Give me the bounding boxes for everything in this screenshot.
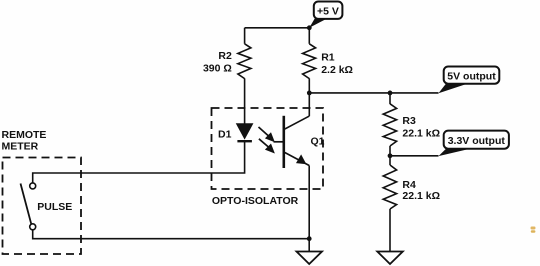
- svg-text:Q1: Q1: [311, 136, 325, 148]
- svg-text:METER: METER: [2, 141, 39, 153]
- svg-text:22.1 kΩ: 22.1 kΩ: [402, 127, 440, 139]
- svg-text:R1: R1: [321, 51, 335, 63]
- svg-text:PULSE: PULSE: [37, 201, 72, 213]
- svg-text:3.3V output: 3.3V output: [448, 135, 506, 147]
- svg-text:OPTO-ISOLATOR: OPTO-ISOLATOR: [212, 195, 299, 207]
- svg-text:+5 V: +5 V: [317, 5, 339, 17]
- svg-text:2.2 kΩ: 2.2 kΩ: [321, 64, 353, 76]
- svg-text:REMOTE: REMOTE: [2, 129, 47, 141]
- svg-text:R2: R2: [218, 50, 232, 62]
- svg-text:D1: D1: [218, 129, 232, 141]
- svg-text:390 Ω: 390 Ω: [203, 62, 232, 74]
- svg-text:22.1 kΩ: 22.1 kΩ: [402, 190, 440, 202]
- svg-text:R3: R3: [402, 115, 416, 127]
- svg-text:5V output: 5V output: [447, 71, 496, 83]
